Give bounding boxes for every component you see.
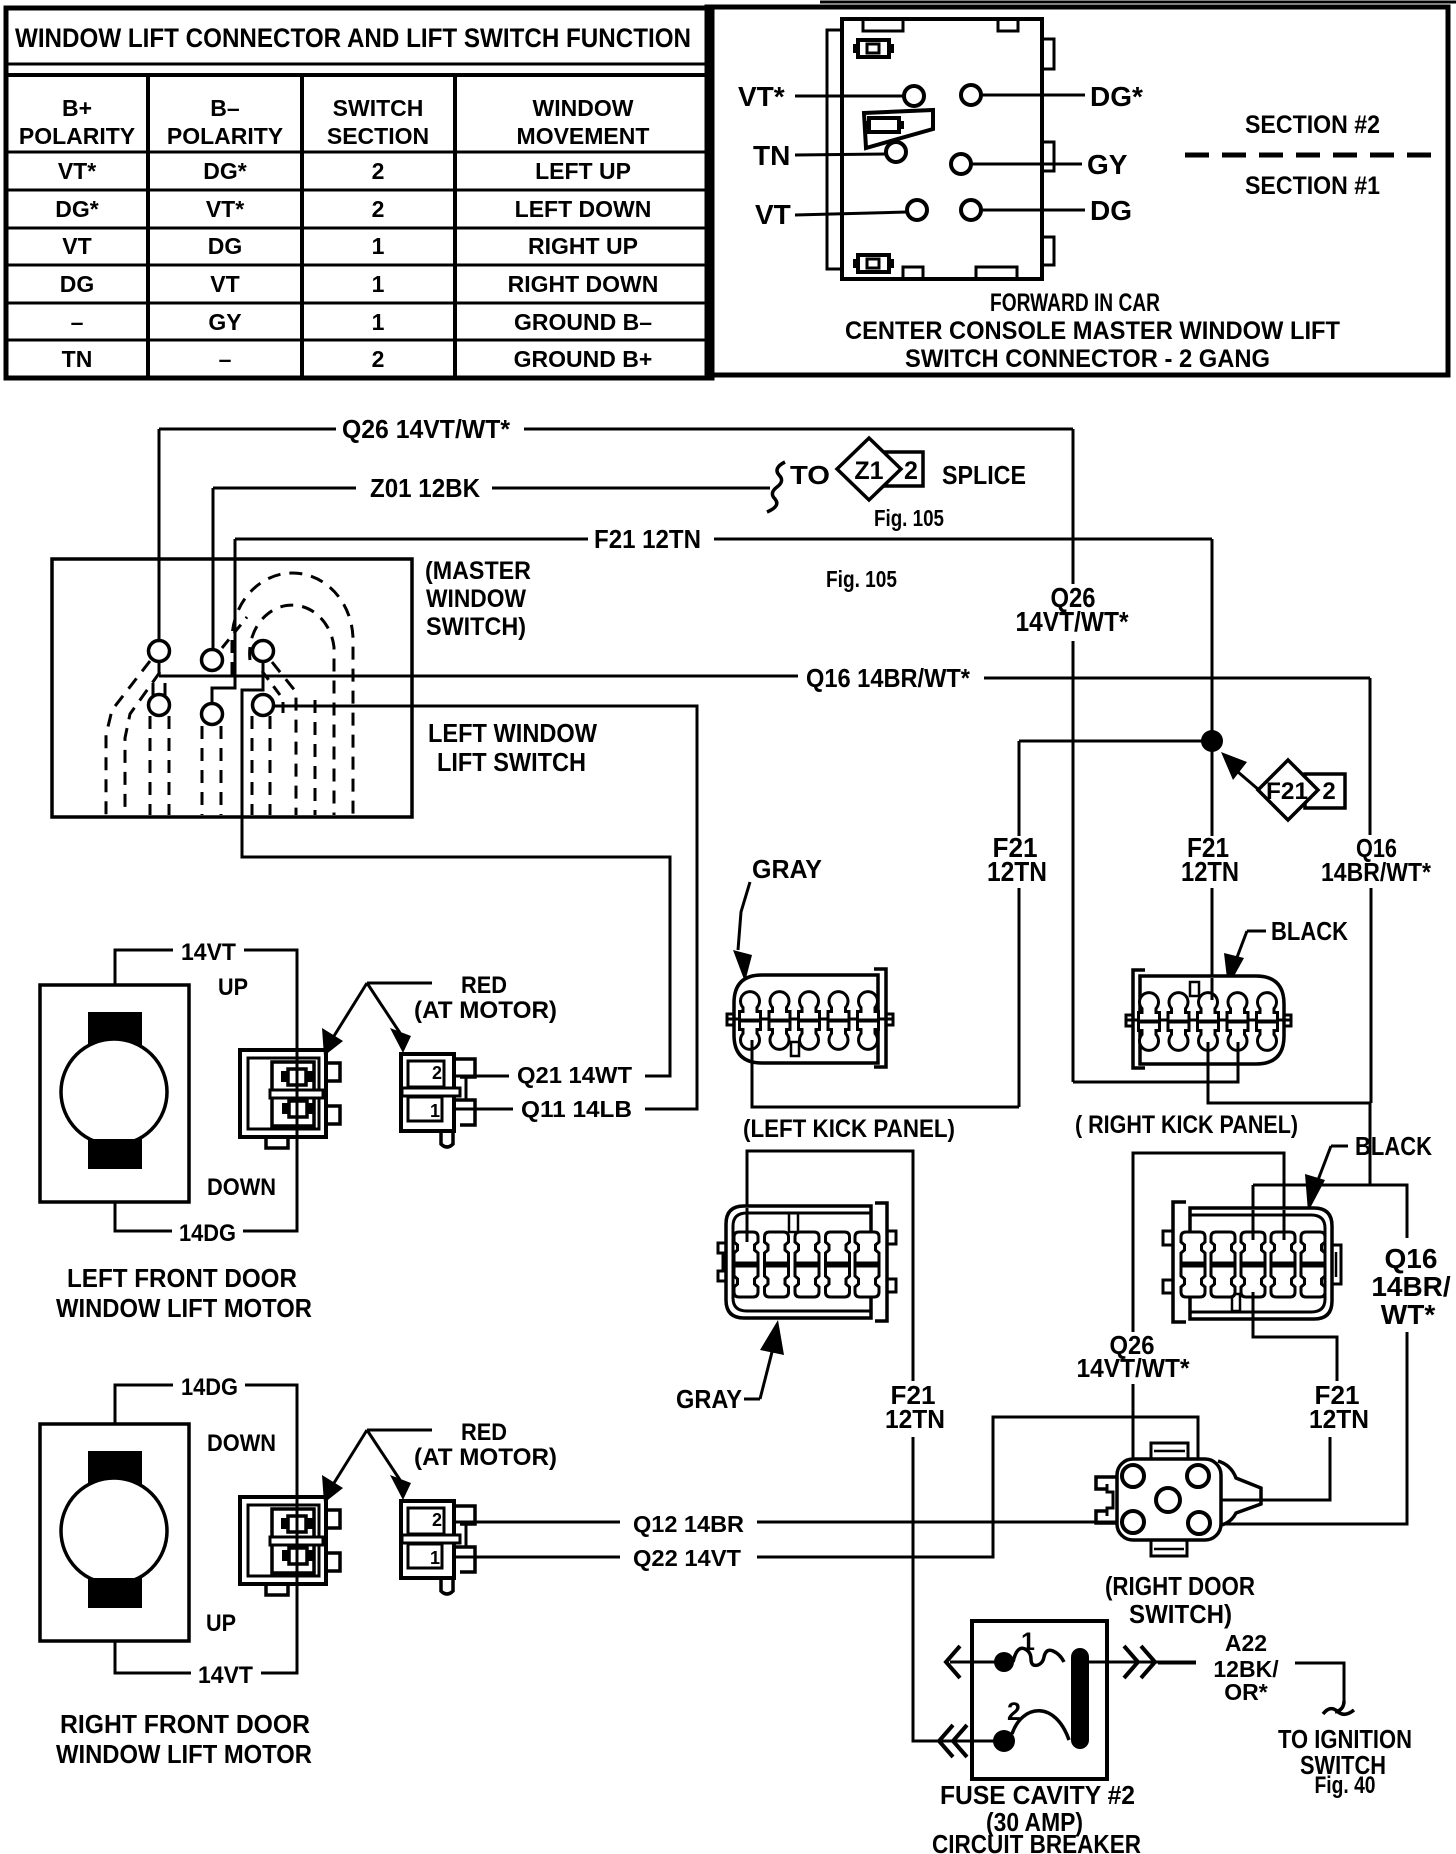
wire to right door switch <box>1132 1384 1135 1463</box>
svg-text:FORWARD IN CAR: FORWARD IN CAR <box>990 289 1160 317</box>
pin C2 <box>202 650 223 671</box>
index notch <box>1190 982 1199 996</box>
svg-text:Q16 14BR/WT*: Q16 14BR/WT* <box>806 663 971 693</box>
svg-text:LIFT SWITCH: LIFT SWITCH <box>437 747 586 777</box>
splice symbol Z1 <box>837 438 923 500</box>
svg-text:(MASTER: (MASTER <box>425 557 531 585</box>
splice squiggle <box>767 462 785 512</box>
wire stub from switch pin <box>158 660 161 676</box>
wire out right <box>1089 1661 1196 1664</box>
wire Q22 14VT from right motor <box>455 1417 1198 1571</box>
table outer border <box>6 8 712 378</box>
svg-text:14VT: 14VT <box>181 939 236 966</box>
right tabs <box>887 1231 896 1244</box>
wire <box>235 538 588 541</box>
chevrons out right <box>1124 1646 1138 1678</box>
svg-text:GRAY: GRAY <box>676 1384 742 1414</box>
svg-text:F21: F21 <box>1266 778 1308 805</box>
panel border <box>707 7 1448 375</box>
pins bottom row <box>1181 1266 1205 1297</box>
svg-text:VT*: VT* <box>206 196 244 222</box>
pins bottom row <box>734 1266 758 1297</box>
top hook <box>454 1059 475 1077</box>
arrow line <box>738 882 750 950</box>
svg-text:SWITCH: SWITCH <box>333 95 424 121</box>
wire from gray connector up and over <box>747 1151 913 1381</box>
wire Q26 vertical drop <box>1072 429 1075 584</box>
right hook top <box>326 1063 340 1081</box>
svg-text:TN: TN <box>62 346 93 372</box>
motor M1 left front door window lift motor <box>40 939 312 1323</box>
motor armature <box>61 1039 167 1145</box>
svg-text:B+: B+ <box>62 95 92 121</box>
left keyway <box>1096 1477 1117 1489</box>
wire F21 12TN top run <box>212 524 1212 835</box>
wire Q26 into master switch <box>158 429 161 641</box>
arrow right leg <box>367 983 400 1033</box>
svg-text:TN: TN <box>753 140 790 171</box>
wire to A22 <box>1158 1662 1196 1665</box>
svg-text:DG*: DG* <box>55 196 99 222</box>
dashed contact pair from C3 <box>272 662 296 815</box>
table: window lift connector and lift switch function <box>6 8 712 378</box>
lead DG <box>982 209 1085 212</box>
svg-text:1: 1 <box>372 233 385 259</box>
terminal 1 <box>288 1069 306 1085</box>
left tab <box>727 1014 734 1025</box>
svg-text:GY: GY <box>1087 149 1128 180</box>
connector C100 left kick panel <box>727 969 955 1143</box>
connector J1 keyway trapezoid <box>864 110 933 148</box>
label F21 12TN <box>885 1380 945 1434</box>
svg-text:Z01 12BK: Z01 12BK <box>370 473 480 503</box>
midline <box>727 1018 892 1021</box>
switch box <box>52 559 412 817</box>
wire from pin 3 bottom <box>1207 1042 1210 1068</box>
motor M2 right front door window lift motor <box>40 1374 312 1769</box>
wire Q26 to right door switch <box>1077 1153 1285 1463</box>
motor brush bottom <box>88 1578 142 1608</box>
motor M1 red connector (harness side) <box>401 1054 475 1147</box>
wire Q16 14BR/WT* run <box>159 660 1371 1185</box>
table column divider 1 <box>146 75 150 378</box>
svg-text:WINDOW: WINDOW <box>426 585 526 613</box>
chevron in left <box>946 1646 960 1678</box>
svg-text:SECTION #1: SECTION #1 <box>1245 172 1380 200</box>
svg-text:DG*: DG* <box>203 158 247 184</box>
svg-text:14VT: 14VT <box>198 1662 253 1689</box>
svg-text:WINDOW LIFT MOTOR: WINDOW LIFT MOTOR <box>56 1739 312 1769</box>
pin C1 <box>149 641 170 662</box>
connector J1 top notches <box>863 19 903 31</box>
junction splice F21 <box>1019 730 1345 836</box>
connector J1 left flange <box>827 30 842 269</box>
svg-text:RED: RED <box>461 1419 507 1446</box>
svg-text:RED: RED <box>461 972 507 999</box>
wire into black connector pin <box>1252 1185 1255 1238</box>
label Q16 14BR/WT* (right drop) <box>1321 833 1432 887</box>
label F21 12TN (right drop) <box>1181 832 1239 995</box>
svg-text:DOWN: DOWN <box>207 1174 276 1201</box>
terminal 1 cavity <box>408 1097 442 1121</box>
svg-text:14BR/WT*: 14BR/WT* <box>1321 857 1432 887</box>
pin VT <box>907 200 927 220</box>
connector J1 body <box>842 19 1042 279</box>
motor armature <box>61 1478 167 1584</box>
motor brush top <box>88 1012 142 1046</box>
wire 14VT <box>115 1641 191 1673</box>
squiggle end <box>1335 1701 1344 1712</box>
svg-text:SWITCH): SWITCH) <box>1129 1599 1232 1629</box>
svg-text:VT: VT <box>62 233 91 259</box>
wire Z01 12BK <box>213 438 1026 650</box>
motor M1 connector (at motor side) <box>240 1050 340 1148</box>
connector J1 bottom notches <box>903 267 923 279</box>
lead TN <box>795 154 886 155</box>
pin VT* <box>904 86 924 106</box>
pin C6 <box>253 695 274 716</box>
breaker bar <box>1071 1648 1089 1749</box>
wire 14DG <box>115 1385 173 1424</box>
svg-text:2: 2 <box>372 158 385 184</box>
svg-text:F21 12TN: F21 12TN <box>594 524 701 554</box>
arrow to junction from F21 splice symbol <box>1238 772 1259 790</box>
label TO IGNITION SWITCH Fig. 40 <box>1278 1724 1412 1799</box>
wire Q11 14LB from master switch <box>273 706 697 1122</box>
wire Q16 into right kick panel <box>1208 1052 1370 1103</box>
wire F21 to fuse cavity (left branch) <box>747 1151 994 1741</box>
svg-text:CIRCUIT BREAKER: CIRCUIT BREAKER <box>932 1829 1141 1854</box>
svg-text:TO: TO <box>790 460 830 490</box>
wire <box>714 538 1212 541</box>
motor body <box>40 1424 189 1641</box>
motor body <box>40 985 189 1202</box>
svg-text:VT: VT <box>755 199 791 230</box>
svg-text:RIGHT UP: RIGHT UP <box>528 233 638 259</box>
wire F21 vertical to junction <box>1211 539 1214 835</box>
pin TN <box>886 142 906 162</box>
fuse element 2 arc <box>1012 1711 1069 1740</box>
body <box>1117 1459 1221 1540</box>
svg-text:Fig. 105: Fig. 105 <box>826 566 897 592</box>
index notch <box>789 1213 798 1232</box>
svg-text:2: 2 <box>904 457 918 485</box>
index notch bottom <box>1232 1294 1240 1311</box>
wire <box>261 1584 297 1673</box>
wire into pin 3 top <box>1252 1210 1255 1240</box>
table header text <box>19 95 650 149</box>
lead VT <box>795 212 907 215</box>
svg-text:FUSE CAVITY #2: FUSE CAVITY #2 <box>940 1780 1135 1810</box>
end cap <box>1133 970 1145 1068</box>
bottom tab <box>441 1131 453 1147</box>
svg-text:(LEFT KICK PANEL): (LEFT KICK PANEL) <box>743 1115 955 1143</box>
arrowhead <box>1224 953 1244 987</box>
svg-text:Q16: Q16 <box>1385 1243 1438 1274</box>
pins top row <box>740 992 761 1020</box>
wire <box>159 675 798 678</box>
svg-text:VT*: VT* <box>738 81 785 112</box>
svg-text:2: 2 <box>432 1063 442 1083</box>
svg-text:POLARITY: POLARITY <box>167 123 283 149</box>
wire <box>984 677 1370 680</box>
dashed line right of C6 <box>314 700 317 815</box>
table double rule under title <box>6 63 712 66</box>
wire <box>245 1385 297 1587</box>
svg-text:DG*: DG* <box>1090 81 1143 112</box>
label Q26 14VT/WT* vertical <box>1016 582 1129 637</box>
svg-text:VT: VT <box>210 271 239 297</box>
body <box>734 975 878 1063</box>
wire <box>455 1521 620 1524</box>
wire Q12 14BR from right motor <box>455 1511 1124 1537</box>
wire <box>455 1556 620 1559</box>
wire F21 drop to left kick panel <box>1018 741 1021 836</box>
label RED (AT MOTOR) for M1 <box>322 972 557 1056</box>
wire F21 drop to right kick panel <box>1211 888 1214 995</box>
arrowhead <box>1305 1174 1325 1212</box>
svg-text:( RIGHT KICK PANEL): ( RIGHT KICK PANEL) <box>1075 1111 1298 1139</box>
pin C5 <box>202 704 223 725</box>
wire from black connector pin down <box>1253 1298 1337 1381</box>
svg-text:WINDOW LIFT MOTOR: WINDOW LIFT MOTOR <box>56 1293 312 1323</box>
svg-text:UP: UP <box>206 1610 236 1637</box>
svg-text:14DG: 14DG <box>181 1374 238 1401</box>
pin C4 <box>149 695 170 716</box>
table row rules <box>6 151 712 154</box>
fuse element 1 squiggle <box>1013 1648 1064 1665</box>
pin GY <box>951 154 971 174</box>
svg-text:2: 2 <box>372 346 385 372</box>
connector body <box>401 1054 454 1131</box>
svg-text:14DG: 14DG <box>179 1220 236 1247</box>
svg-text:WINDOW LIFT CONNECTOR AND LIFT: WINDOW LIFT CONNECTOR AND LIFT SWITCH FU… <box>15 23 691 53</box>
svg-text:–: – <box>219 346 232 372</box>
wire to right door switch top <box>757 1417 1198 1557</box>
svg-text:12TN: 12TN <box>1181 856 1239 887</box>
wire <box>244 950 297 1140</box>
label GRAY (left kick panel) with arrow <box>733 854 822 982</box>
svg-text:LEFT UP: LEFT UP <box>535 158 631 184</box>
svg-text:DOWN: DOWN <box>207 1430 276 1457</box>
svg-text:B–: B– <box>210 95 240 121</box>
svg-text:Z1: Z1 <box>854 457 883 485</box>
wire Q21 14WT from master switch <box>242 661 670 1088</box>
svg-text:DG: DG <box>60 271 95 297</box>
svg-text:12TN: 12TN <box>1309 1404 1369 1434</box>
table body rows <box>55 158 658 372</box>
right bar <box>465 1077 468 1100</box>
bottom hook <box>454 1100 475 1125</box>
left tab <box>1126 1015 1133 1026</box>
terminal 2 cavity <box>408 1061 444 1087</box>
wire into pin 3 top <box>1211 978 1214 1000</box>
label BLACK (right door black connector) with arrow <box>1305 1131 1432 1212</box>
svg-text:MOVEMENT: MOVEMENT <box>517 123 650 149</box>
pin DG* <box>961 85 981 105</box>
svg-text:1: 1 <box>372 309 385 335</box>
wire into pin 1 <box>950 1661 996 1664</box>
pin 2 dot <box>993 1730 1015 1752</box>
connector J1 polarizing lug bottom-left <box>853 255 894 272</box>
wire <box>1253 1185 1407 1238</box>
wire from black connector run <box>1133 1153 1284 1332</box>
wire Q16 tee to black connector and right door switch <box>1210 1185 1451 1524</box>
connector J1 polarizing lug top-left <box>853 40 894 57</box>
svg-text:RIGHT DOWN: RIGHT DOWN <box>508 271 659 297</box>
wire <box>242 661 670 1076</box>
page edge line at top <box>820 1 1456 4</box>
splice symbol F21 2 <box>1258 760 1345 820</box>
svg-text:Q11 14LB: Q11 14LB <box>521 1096 632 1122</box>
label LEFT WINDOW LIFT SWITCH <box>428 718 597 777</box>
wire 14VT <box>115 950 173 985</box>
svg-text:Fig. 105: Fig. 105 <box>874 505 944 531</box>
svg-text:LEFT WINDOW: LEFT WINDOW <box>428 718 597 748</box>
wire <box>213 487 356 490</box>
label F21 12TN (left drop) <box>752 741 1047 1107</box>
wire down to fuse <box>913 1437 994 1741</box>
section divider dashed <box>1185 153 1436 158</box>
svg-text:SWITCH): SWITCH) <box>426 613 526 641</box>
svg-text:DG: DG <box>1090 195 1132 226</box>
left tabs <box>1163 1231 1173 1245</box>
right tab <box>1284 1015 1291 1026</box>
lead DG* <box>982 94 1085 97</box>
breaker box <box>972 1621 1107 1779</box>
wire Q16 to right door switch <box>1210 1332 1407 1524</box>
dashed contact pair from C1 <box>106 661 150 815</box>
svg-text:SWITCH CONNECTOR - 2 GANG: SWITCH CONNECTOR - 2 GANG <box>905 345 1270 373</box>
wire 14DG <box>115 1202 172 1231</box>
svg-text:GROUND B–: GROUND B– <box>514 309 652 335</box>
wire Q26 vertical lower <box>1072 641 1075 1082</box>
svg-text:Q22 14VT: Q22 14VT <box>633 1545 741 1571</box>
pin labels left <box>738 81 1143 230</box>
wire through connector <box>296 1052 299 1135</box>
pin C3 <box>253 641 274 662</box>
fuse cavity #2 circuit breaker <box>932 1621 1196 1854</box>
label (MASTER WINDOW SWITCH) <box>425 557 531 641</box>
caption (RIGHT DOOR SWITCH) <box>1105 1571 1255 1629</box>
wire into pin 1 <box>746 1208 749 1242</box>
lead GY <box>972 163 1082 166</box>
junction dot <box>1201 730 1223 752</box>
dashed lines under C5 <box>201 726 204 815</box>
svg-text:(AT MOTOR): (AT MOTOR) <box>414 997 557 1024</box>
body inner line <box>1190 1215 1325 1312</box>
svg-text:Q12 14BR: Q12 14BR <box>633 1511 744 1537</box>
chevrons in bottom <box>939 1725 953 1757</box>
arrow right leg <box>367 1430 400 1480</box>
motor brush top <box>88 1451 142 1485</box>
motor M2 red connector (harness side) <box>401 1501 475 1594</box>
label A22 12BK/OR* <box>1213 1630 1412 1799</box>
connector J1 right tabs <box>1042 39 1054 69</box>
svg-text:SECTION: SECTION <box>327 123 429 149</box>
wire <box>243 1137 297 1231</box>
svg-text:WINDOW: WINDOW <box>533 95 634 121</box>
wire Q26 14VT/WT* top run <box>159 414 1238 1082</box>
svg-text:WT*: WT* <box>1381 1299 1436 1330</box>
svg-text:LEFT FRONT DOOR: LEFT FRONT DOOR <box>67 1263 297 1293</box>
center bar <box>270 1090 323 1098</box>
svg-text:Q26 14VT/WT*: Q26 14VT/WT* <box>342 414 511 444</box>
svg-text:OR*: OR* <box>1224 1679 1268 1705</box>
pins top row <box>1181 1232 1205 1263</box>
wire to right door switch center <box>1182 1437 1330 1500</box>
table column divider 2 <box>300 75 304 378</box>
label F21 12TN <box>1309 1380 1369 1434</box>
svg-text:RIGHT FRONT DOOR: RIGHT FRONT DOOR <box>60 1709 310 1739</box>
master window switch <box>52 557 597 817</box>
wire from pin 1 bottom <box>751 1040 754 1066</box>
svg-text:UP: UP <box>218 974 248 1001</box>
pins bottom row <box>740 1021 761 1049</box>
wire <box>492 487 770 490</box>
wire <box>159 428 336 431</box>
wire F21 between junction <box>1211 741 1214 836</box>
wire to ignition switch <box>1295 1663 1344 1701</box>
svg-text:1: 1 <box>430 1101 440 1121</box>
pin 1 dot <box>994 1652 1014 1672</box>
svg-text:CENTER CONSOLE MASTER WINDOW L: CENTER CONSOLE MASTER WINDOW LIFT <box>845 317 1340 345</box>
body outer <box>1190 1208 1332 1319</box>
svg-text:14BR/: 14BR/ <box>1371 1271 1451 1302</box>
caption FUSE CAVITY #2 (30 AMP) CIRCUIT BREAKER <box>932 1780 1141 1854</box>
svg-text:BLACK: BLACK <box>1271 916 1348 946</box>
svg-text:DG: DG <box>208 233 243 259</box>
right tab <box>1332 1245 1341 1284</box>
svg-text:14VT/WT*: 14VT/WT* <box>1016 606 1129 637</box>
right door switch connector <box>1096 1443 1261 1629</box>
label RED (AT MOTOR) for M2 <box>322 1419 557 1503</box>
wire F21 to right door switch (right branch) <box>1182 1298 1369 1500</box>
top tab <box>1151 1443 1188 1459</box>
wire Q16 vertical <box>1369 678 1372 835</box>
svg-text:12TN: 12TN <box>987 856 1047 887</box>
pins top row <box>734 1232 758 1263</box>
arrow left leg <box>334 1430 367 1483</box>
dashed contact arc inner <box>250 605 334 815</box>
wire from pin 4 bottom <box>1237 1042 1240 1068</box>
svg-text:2: 2 <box>1322 778 1335 805</box>
svg-text:A22: A22 <box>1225 1630 1267 1656</box>
terminal 2 <box>289 1101 307 1117</box>
right hook bottom <box>326 1106 340 1124</box>
label BLACK (right kick panel) with arrow <box>1224 916 1348 987</box>
wire to motor connector <box>455 1108 513 1111</box>
dashed lines under C4 <box>149 716 152 815</box>
terminal cage <box>272 1062 314 1126</box>
pin DG <box>961 200 981 220</box>
label Q26 14VT/WT* <box>1077 1330 1191 1383</box>
left keyway tab <box>718 1243 726 1281</box>
svg-text:–: – <box>71 309 84 335</box>
pin C4 stub <box>152 683 155 695</box>
svg-text:GROUND B+: GROUND B+ <box>514 346 653 372</box>
label Q16 14BR/ WT* <box>1371 1243 1451 1330</box>
bottom tab <box>1151 1540 1187 1556</box>
svg-text:2: 2 <box>372 196 385 222</box>
pins bottom row <box>1139 1022 1160 1050</box>
midline <box>1126 1019 1291 1022</box>
svg-text:Fig. 40: Fig. 40 <box>1315 1772 1376 1799</box>
wire to motor connector <box>455 1075 509 1078</box>
bottom latch notch <box>266 1137 288 1148</box>
wire from pin 3 bottom <box>1252 1292 1255 1322</box>
svg-text:LEFT DOWN: LEFT DOWN <box>515 196 652 222</box>
